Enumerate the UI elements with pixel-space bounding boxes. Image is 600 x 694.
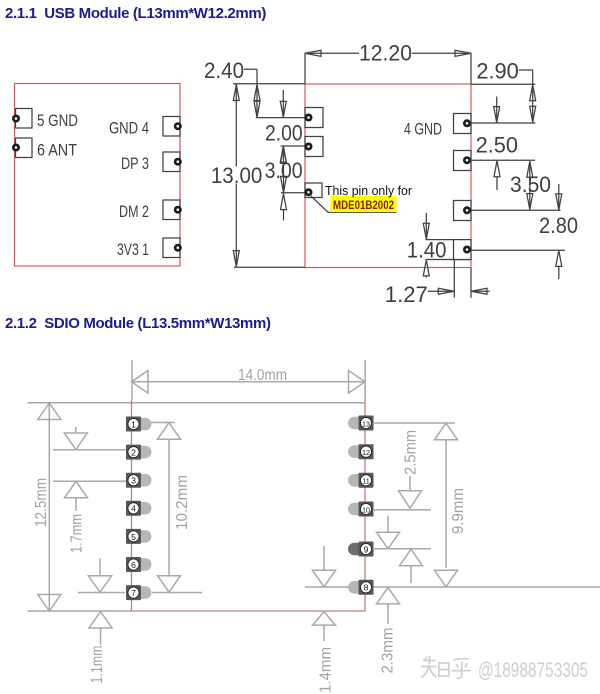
dimension 2.90 arrows bbox=[532, 85, 534, 123]
dimension 2.00 upper arrow bbox=[282, 90, 284, 117]
top-left extension line bbox=[233, 83, 305, 85]
SDIO pin 7 bbox=[126, 585, 152, 600]
SDIO pin 5 bbox=[126, 529, 152, 544]
svg-text:This pin only for: This pin only for bbox=[325, 183, 413, 198]
svg-text:9.9mm: 9.9mm bbox=[450, 488, 467, 534]
svg-text:GND 4: GND 4 bbox=[109, 119, 149, 138]
svg-text:9: 9 bbox=[364, 544, 369, 554]
dimension 12.20 arrowheads bbox=[305, 50, 471, 56]
dimension 12.5mm arrowheads bbox=[38, 403, 61, 611]
svg-text:2.3mm: 2.3mm bbox=[380, 628, 397, 674]
svg-text:DM 2: DM 2 bbox=[119, 202, 149, 221]
dimension 13.00 arrowheads bbox=[233, 85, 239, 267]
left pin 6 pad (dim view) bbox=[305, 137, 324, 157]
dimension 12.20 extension lines bbox=[305, 53, 471, 84]
SDIO module left edge (red) bbox=[131, 400, 133, 611]
dimension 2.50 upper arrow bbox=[496, 97, 498, 123]
SDIO pin 3 bbox=[126, 473, 152, 488]
SDIO pin 8 bbox=[348, 580, 374, 595]
dimension 2.80 upper arrow bbox=[558, 184, 560, 210]
dimension 1.40 extension lines bbox=[426, 240, 472, 260]
svg-text:4 GND: 4 GND bbox=[404, 120, 442, 139]
USB module drawings (section 2.1.1) bbox=[12, 41, 578, 307]
dimension 12.5mm line bbox=[48, 403, 50, 611]
dimension 1.4mm upper arrow bbox=[323, 546, 325, 570]
svg-text:7: 7 bbox=[131, 588, 136, 598]
pin9 center line (right) bbox=[374, 548, 431, 550]
svg-text:2.80: 2.80 bbox=[539, 213, 578, 238]
pin1 center line (left) bbox=[134, 422, 175, 424]
left pin 5 pad (dim view) bbox=[305, 108, 324, 128]
SDIO module top edge bbox=[28, 402, 366, 404]
watermark 知 glyph bbox=[421, 656, 449, 678]
dimension 2.3mm lower arrow bbox=[377, 587, 400, 604]
pin 5 pad bbox=[12, 109, 32, 129]
svg-text:1.7mm: 1.7mm bbox=[69, 514, 86, 553]
dimension 2.90 leader elbow bbox=[519, 70, 533, 84]
dimension 14.0mm arrowheads bbox=[132, 371, 366, 394]
svg-text:10: 10 bbox=[362, 505, 370, 514]
dimension 1.1mm upper arrow bbox=[99, 559, 101, 576]
SDIO bottom extension line bbox=[28, 610, 132, 612]
svg-text:11: 11 bbox=[362, 477, 369, 486]
svg-text:1.27: 1.27 bbox=[385, 282, 428, 307]
svg-text:5: 5 bbox=[131, 532, 136, 542]
dimension 1.7mm upper arrow bbox=[75, 427, 77, 433]
right pin 3 pad (dim view) bbox=[454, 201, 472, 221]
dimension 1.40 lower arrow bbox=[423, 260, 429, 276]
pin13 center line (right) bbox=[374, 422, 455, 424]
bottom-left extension line bbox=[234, 266, 305, 268]
14.0mm extension verticals bbox=[132, 360, 365, 400]
pin 3 center extension line bbox=[471, 209, 561, 211]
pin 4 center extension line bbox=[471, 249, 565, 251]
svg-text:1.1mm: 1.1mm bbox=[89, 646, 106, 684]
USB module outline (dimension view) bbox=[305, 84, 471, 268]
dimension 2.40 leader elbow bbox=[244, 69, 257, 84]
svg-text:10.2mm: 10.2mm bbox=[174, 475, 191, 530]
watermark 乎 glyph bbox=[452, 659, 471, 678]
SDIO pin 9 (dark) bbox=[348, 542, 374, 557]
right pin 2 pad (dim view) bbox=[454, 151, 472, 171]
SDIO pin 2 bbox=[126, 445, 152, 460]
zhihu watermark bbox=[421, 656, 588, 682]
svg-text:3.50: 3.50 bbox=[510, 172, 551, 197]
pin3 center line (left) bbox=[53, 480, 134, 482]
pin 6 center extension line bbox=[281, 145, 305, 147]
callout leader line bbox=[311, 196, 397, 212]
dimension 10.2mm arrowheads bbox=[158, 423, 181, 593]
svg-text:4: 4 bbox=[131, 504, 136, 514]
SDIO pin 13 bbox=[348, 416, 374, 431]
dimension 2.5mm lower arrow bbox=[400, 549, 423, 566]
SDIO pin 6 bbox=[126, 557, 151, 572]
svg-text:@18988753305: @18988753305 bbox=[478, 659, 588, 682]
SDIO pin 1 bbox=[126, 417, 151, 432]
pin2 center line (left) bbox=[53, 449, 134, 451]
svg-text:2.50: 2.50 bbox=[476, 133, 518, 158]
SDIO module dimension drawing (section 2.1.2) bbox=[28, 360, 600, 693]
dimension 1.27 line and arrows bbox=[428, 290, 490, 292]
svg-text:3.00: 3.00 bbox=[265, 158, 303, 183]
svg-text:MDE01B2002: MDE01B2002 bbox=[333, 198, 394, 212]
svg-text:8: 8 bbox=[364, 583, 369, 593]
special pin center extension line bbox=[281, 192, 305, 194]
dimension 1.1mm lower arrow bbox=[89, 612, 112, 629]
svg-text:5 GND: 5 GND bbox=[37, 111, 78, 130]
right pin 1 pad (dim view) bbox=[454, 114, 472, 134]
pin 3 pad bbox=[163, 152, 182, 172]
svg-text:2.00: 2.00 bbox=[265, 121, 303, 146]
svg-text:6 ANT: 6 ANT bbox=[37, 141, 77, 160]
svg-text:13: 13 bbox=[362, 419, 370, 428]
svg-text:12.5mm: 12.5mm bbox=[33, 478, 50, 527]
dimension 12.20 line bbox=[305, 52, 471, 54]
section title 2.1.2 bbox=[5, 315, 271, 333]
SDIO pin 10 bbox=[348, 502, 374, 517]
right pin 4 pad (dim view) bbox=[454, 240, 472, 260]
dimension 1.4mm lower arrow bbox=[313, 612, 336, 626]
dimension 1.7mm lower arrow bbox=[65, 481, 88, 498]
dimension 10.2mm line bbox=[168, 440, 170, 576]
SDIO module bottom edge (red) bbox=[132, 610, 366, 612]
svg-text:DP 3: DP 3 bbox=[121, 154, 149, 173]
dimension 13.00 line bbox=[235, 84, 237, 266]
SDIO module right edge (red) bbox=[364, 400, 366, 611]
dimension 1.40 upper arrow bbox=[425, 213, 427, 239]
svg-text:3: 3 bbox=[131, 476, 136, 486]
svg-text:12.20: 12.20 bbox=[359, 41, 412, 66]
dimension 2.80 lower arrow bbox=[556, 250, 562, 266]
dimension 9.9mm line bbox=[445, 440, 447, 568]
dimension 3.50 line and arrows bbox=[529, 161, 531, 210]
pin 5 center extension line bbox=[256, 117, 305, 119]
pin 2 center extension line bbox=[470, 159, 535, 161]
pin 2 pad bbox=[163, 200, 182, 220]
dimension 2.3mm upper arrow bbox=[387, 516, 389, 532]
pin7 center line (left) bbox=[78, 592, 202, 594]
section title 2.1.1 bbox=[5, 5, 266, 23]
svg-text:1.4mm: 1.4mm bbox=[318, 647, 335, 693]
SDIO pin 4 bbox=[126, 501, 151, 516]
svg-text:2.90: 2.90 bbox=[476, 58, 518, 83]
special pin pad (dim view) bbox=[305, 183, 323, 198]
pin8 center line (right) bbox=[305, 586, 600, 588]
dimension 9.9mm arrowheads bbox=[435, 423, 458, 587]
top-right extension line bbox=[471, 83, 535, 85]
USB module outline (left view) bbox=[15, 84, 181, 267]
dimension 14.0mm line bbox=[132, 381, 366, 383]
dimension 2.00 lower arrow bbox=[280, 146, 286, 162]
SDIO pin 11 bbox=[348, 473, 374, 488]
pin 4 pad bbox=[163, 117, 182, 137]
pin 1 pad bbox=[163, 238, 182, 258]
callout highlight box bbox=[331, 196, 397, 213]
pin 1 center extension line bbox=[470, 122, 535, 124]
arrow below special pin line bbox=[281, 194, 287, 210]
dimension 3.00 line and arrows bbox=[283, 147, 285, 192]
pin10 center line (right) bbox=[374, 509, 431, 511]
svg-text:2: 2 bbox=[131, 448, 136, 458]
dimension 1.27 extension lines bbox=[454, 260, 471, 298]
svg-text:3V3 1: 3V3 1 bbox=[117, 240, 149, 259]
svg-text:13.00: 13.00 bbox=[211, 163, 263, 188]
svg-text:2.5mm: 2.5mm bbox=[403, 430, 420, 475]
pin 6 pad bbox=[12, 138, 32, 158]
dimension 2.5mm upper arrow bbox=[409, 476, 411, 490]
SDIO module pins bbox=[126, 416, 374, 601]
svg-text:1: 1 bbox=[131, 419, 136, 429]
dimension 2.50 lower arrow bbox=[494, 161, 500, 177]
svg-text:2.40: 2.40 bbox=[204, 58, 244, 83]
SDIO pin 12 bbox=[348, 444, 374, 459]
svg-text:14.0mm: 14.0mm bbox=[238, 367, 287, 384]
svg-text:1.40: 1.40 bbox=[407, 238, 447, 263]
dimension 2.40 arrows bbox=[256, 85, 258, 118]
svg-text:12: 12 bbox=[362, 448, 370, 457]
svg-text:6: 6 bbox=[131, 560, 136, 570]
